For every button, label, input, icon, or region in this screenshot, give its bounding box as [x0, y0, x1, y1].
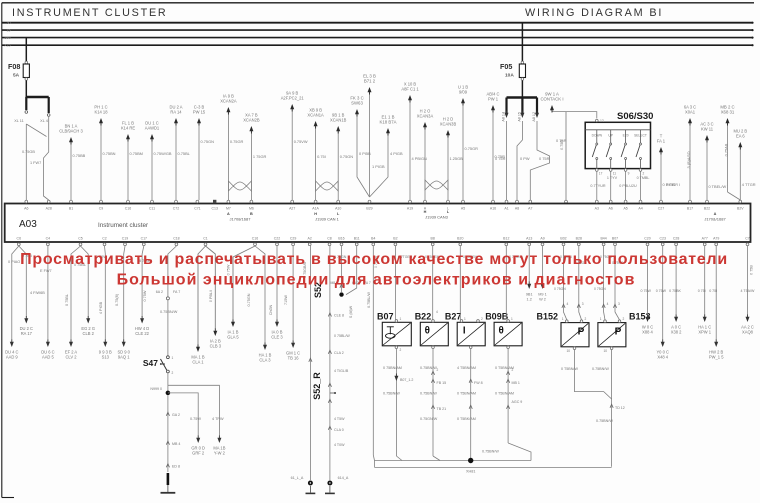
- svg-text:1: 1: [400, 317, 402, 321]
- ground symbol S47: [161, 492, 176, 494]
- svg-text:B22: B22: [415, 311, 432, 321]
- svg-text:S47: S47: [143, 358, 158, 368]
- svg-text:WIRING DIAGRAM BI: WIRING DIAGRAM BI: [525, 7, 663, 19]
- svg-text:C13: C13: [211, 207, 217, 211]
- wire pin C1 V-split right to IA2B: [206, 246, 216, 329]
- svg-text:C71: C71: [194, 207, 200, 211]
- svg-text:0 T5BN/AM: 0 T5BN/AM: [495, 366, 514, 370]
- wire col B2V: [739, 146, 741, 200]
- svg-text:CLE 8: CLE 8: [334, 314, 344, 318]
- F05 branch bar: [507, 96, 538, 98]
- svg-text:B02: B02: [560, 237, 566, 241]
- svg-text:M6: M6: [249, 207, 254, 211]
- wire col A10: [337, 130, 339, 200]
- wire from pin 255.0 to arrow HA 1 B: [255, 246, 265, 343]
- svg-text:4: 4: [567, 302, 569, 306]
- svg-text:1: 1: [172, 356, 174, 360]
- svg-text:3: 3: [582, 302, 584, 306]
- wire from pin 47.9 to arrow DU 6 C: [47, 246, 49, 340]
- wire from pin 125.0 to arrow SD 9 0: [124, 246, 125, 340]
- wire from pin 143.8 to arrow HW 4 D: [142, 246, 144, 317]
- svg-text:4 T5W: 4 T5W: [334, 417, 345, 421]
- svg-text:AGC 9: AGC 9: [512, 400, 523, 404]
- svg-text:H: H: [314, 212, 317, 216]
- svg-text:X0A1: X0A1: [685, 110, 696, 115]
- svg-text:A7: A7: [528, 207, 532, 211]
- svg-text:S (M)W: S (M)W: [349, 305, 353, 318]
- B153 output chain: [610, 347, 613, 350]
- svg-text:0.75BN/W: 0.75BN/W: [160, 310, 178, 314]
- wire from S06 pin 17 to A03: [596, 171, 598, 200]
- svg-text:4 PIGB: 4 PIGB: [99, 301, 103, 314]
- wire pin B16 stub: [341, 246, 343, 292]
- wire col B22: [706, 139, 708, 200]
- svg-text:B12: B12: [503, 237, 509, 241]
- svg-text:2: 2: [623, 317, 625, 321]
- svg-text:A6: A6: [609, 207, 613, 211]
- svg-text:A13: A13: [526, 237, 532, 241]
- svg-text:0 PW: 0 PW: [520, 156, 530, 161]
- svg-text:FA 1: FA 1: [657, 139, 666, 144]
- svg-text:0 75R: 0 75R: [539, 156, 550, 161]
- svg-text:1 75GR: 1 75GR: [253, 154, 267, 159]
- svg-text:A5: A5: [623, 207, 627, 211]
- svg-text:GA 2: GA 2: [172, 413, 180, 417]
- svg-text:17: 17: [599, 172, 603, 176]
- svg-text:0.7TYUR: 0.7TYUR: [590, 184, 606, 188]
- svg-text:B27: B27: [445, 311, 462, 321]
- svg-text:C72: C72: [173, 207, 179, 211]
- wire col M6: [250, 130, 252, 200]
- svg-text:C2: C2: [102, 237, 107, 241]
- B07 output chain: [395, 346, 398, 349]
- svg-text:4 T5BN/AM: 4 T5BN/AM: [457, 366, 476, 370]
- svg-text:GRF 2: GRF 2: [192, 451, 205, 456]
- svg-text:B20: B20: [457, 237, 463, 241]
- svg-text:C19: C19: [122, 237, 128, 241]
- svg-text:C8: C8: [327, 237, 332, 241]
- wire col A27: [291, 108, 293, 200]
- svg-text:F08: F08: [8, 62, 20, 71]
- svg-text:B44: B44: [600, 237, 606, 241]
- svg-text:2: 2: [172, 371, 174, 375]
- svg-text:C4: C4: [46, 237, 51, 241]
- svg-text:I: I: [463, 325, 466, 336]
- svg-text:Instrument cluster: Instrument cluster: [98, 222, 148, 229]
- svg-text:0 75W: 0 75W: [143, 290, 147, 301]
- wire col B17: [689, 122, 691, 200]
- svg-text:XCAN3B: XCAN3B: [440, 122, 457, 127]
- svg-text:A1: A1: [504, 207, 508, 211]
- svg-text:TB 21: TB 21: [437, 407, 447, 411]
- svg-text:3: 3: [618, 302, 620, 306]
- wire pin B20 to B27: [459, 246, 461, 320]
- svg-text:A79: A79: [713, 237, 719, 241]
- svg-text:2: 2: [400, 348, 402, 352]
- S47 ground chain: [167, 396, 169, 473]
- svg-text:C9: C9: [99, 207, 104, 211]
- svg-text:θ: θ: [498, 325, 503, 336]
- svg-text:C17: C17: [141, 237, 147, 241]
- wire col A1A: [315, 125, 317, 200]
- svg-text:FW 8: FW 8: [474, 381, 483, 385]
- svg-text:A8 14: A8 14: [502, 112, 506, 122]
- svg-text:58d: 58d: [5, 36, 11, 40]
- wire pin B8 to B22: [432, 246, 434, 320]
- svg-text:C28: C28: [673, 237, 679, 241]
- frame top border: [2, 2, 754, 4]
- svg-text:0.75BL: 0.75BL: [178, 151, 191, 156]
- svg-text:E FW7: E FW7: [40, 269, 52, 273]
- wire col E11B: [370, 132, 389, 197]
- svg-text:CLE 3: CLE 3: [271, 335, 283, 340]
- svg-text:0.75W/GB: 0.75W/GB: [154, 151, 172, 156]
- svg-text:H: H: [424, 210, 427, 214]
- svg-text:4 T0W: 4 T0W: [334, 443, 345, 447]
- twisted pair J1939 CAN3: [425, 180, 448, 190]
- wire col H: [424, 126, 426, 200]
- svg-text:715W: 715W: [284, 295, 288, 305]
- svg-text:11: 11: [613, 172, 617, 176]
- B09B output chain: [507, 346, 510, 349]
- wire from pin 80.5 to arrow EG 2 G: [81, 246, 89, 317]
- svg-text:PW 15: PW 15: [193, 110, 206, 115]
- svg-text:1: 1: [464, 317, 466, 321]
- A03 top pin terminals: [25, 200, 28, 203]
- svg-text:0.75W: 0.75W: [190, 417, 201, 421]
- svg-text:A77: A77: [702, 237, 708, 241]
- svg-text:FB 15: FB 15: [437, 381, 447, 385]
- fuse F08 feed wire: [25, 38, 27, 62]
- svg-text:K14 RE: K14 RE: [121, 126, 135, 131]
- svg-text:A5: A5: [461, 207, 465, 211]
- svg-text:A8 12: A8 12: [532, 112, 536, 122]
- switch SELECT: [640, 130, 642, 143]
- svg-text:0 75BL: 0 75BL: [65, 294, 69, 306]
- svg-text:J1939 CAN 1: J1939 CAN 1: [315, 217, 340, 222]
- svg-text:X15: X15: [4, 44, 10, 48]
- svg-text:0.75GN: 0.75GN: [340, 154, 354, 159]
- wires from F05 splitter to A03: [506, 121, 508, 200]
- junction dot B16: [339, 292, 343, 296]
- svg-text:SW63: SW63: [351, 101, 363, 106]
- B22 output chain: [432, 346, 435, 349]
- wire pin B12 to B09B: [505, 246, 507, 320]
- svg-text:0 75I: 0 75I: [698, 289, 706, 293]
- twisted pair J1708: [228, 181, 251, 191]
- svg-text:X38 2: X38 2: [671, 330, 682, 335]
- node junction above S47: [166, 297, 169, 300]
- svg-text:GLA 5: GLA 5: [227, 335, 239, 340]
- svg-text:θ: θ: [425, 325, 430, 336]
- wire col AA 2 C: [747, 246, 749, 315]
- svg-text:0 T5BN/AM: 0 T5BN/AM: [457, 392, 476, 396]
- svg-text:K18 B7A: K18 B7A: [380, 120, 397, 125]
- svg-text:CLA 2: CLA 2: [334, 351, 344, 355]
- ECU A03 instrument cluster box: [5, 204, 751, 243]
- svg-text:0.75BN/W: 0.75BN/W: [420, 366, 437, 370]
- svg-text:0.75GN: 0.75GN: [247, 293, 251, 306]
- svg-text:A2F.PC2_21: A2F.PC2_21: [281, 96, 305, 101]
- wire from pin 18.8 to arrow DU 4 C: [12, 246, 19, 340]
- square terminal C13: [213, 200, 216, 203]
- wire col C16: [127, 138, 129, 200]
- svg-text:3 (B)A/3D: 3 (B)A/3D: [686, 151, 691, 168]
- svg-text:C16: C16: [252, 237, 258, 241]
- svg-text:B07_1.2: B07_1.2: [400, 378, 413, 382]
- svg-text:Просматривать и распечатывать: Просматривать и распечатывать в высоком …: [20, 251, 728, 268]
- svg-text:X48 4: X48 4: [657, 355, 668, 360]
- svg-text:C20: C20: [644, 237, 650, 241]
- svg-text:P: P: [615, 327, 622, 338]
- svg-text:1: 1: [562, 317, 564, 321]
- wires pins B02/B28 to B152: [564, 246, 567, 320]
- svg-text:KW 11: KW 11: [701, 127, 714, 132]
- svg-text:A27: A27: [289, 207, 295, 211]
- svg-text:1: 1: [511, 317, 513, 321]
- svg-text:XH81: XH81: [466, 470, 476, 474]
- svg-text:A1A: A1A: [312, 207, 319, 211]
- svg-text:0 75B: 0 75B: [750, 265, 754, 275]
- svg-text:B71 2: B71 2: [364, 79, 376, 84]
- svg-text:614_A: 614_A: [338, 476, 349, 480]
- svg-text:A: A: [714, 212, 717, 216]
- svg-text:0 TMBL: 0 TMBL: [637, 176, 650, 180]
- svg-text:0 75W: 0 75W: [656, 289, 667, 293]
- svg-text:0.75GB: 0.75GB: [22, 150, 35, 154]
- svg-text:K14 18: K14 18: [95, 110, 109, 115]
- svg-text:AAD 9: AAD 9: [6, 355, 19, 360]
- svg-text:B29: B29: [366, 207, 372, 211]
- svg-text:ED 8: ED 8: [172, 465, 180, 469]
- wire col HA 1 C: [704, 246, 706, 315]
- wire stub left of S06 down to A03: [565, 112, 567, 200]
- svg-text:15: 15: [7, 29, 11, 33]
- svg-text:A19: A19: [407, 207, 413, 211]
- svg-text:2: 2: [481, 317, 483, 321]
- wire pin C18 to S47: [168, 246, 177, 297]
- wire pin A13 arrow: [528, 246, 530, 282]
- svg-text:10A: 10A: [505, 73, 514, 79]
- svg-text:0.75VW: 0.75VW: [294, 139, 308, 144]
- collector line lower: [375, 466, 612, 468]
- svg-text:B22: B22: [704, 207, 710, 211]
- wire XL11 down to pin A6: [25, 124, 27, 200]
- svg-text:C27: C27: [658, 207, 664, 211]
- wire pin A2 to ground 61_L_A: [309, 246, 311, 480]
- svg-text:9AQ 1: 9AQ 1: [118, 355, 130, 360]
- svg-text:PW_1 5: PW_1 5: [709, 355, 724, 360]
- svg-text:4 TTGR: 4 TTGR: [742, 182, 756, 187]
- svg-text:0 TBEL/W: 0 TBEL/W: [709, 184, 727, 189]
- svg-text:C5: C5: [78, 237, 83, 241]
- wire col M7: [227, 111, 229, 200]
- svg-text:AAD 5: AAD 5: [42, 355, 55, 360]
- wire col FK3C: [357, 113, 370, 197]
- svg-text:A3: A3: [595, 207, 599, 211]
- svg-text:0.75GR: 0.75GR: [230, 139, 244, 144]
- svg-text:S52_R: S52_R: [312, 372, 322, 400]
- frame left border: [1, 3, 3, 498]
- wire col A19: [409, 99, 411, 200]
- svg-text:0.75GN: 0.75GN: [201, 139, 215, 144]
- svg-text:MB 4: MB 4: [172, 442, 180, 446]
- svg-text:1 TYV: 1 TYV: [607, 176, 618, 180]
- svg-text:9B1: 9B1: [526, 293, 533, 297]
- svg-text:B07: B07: [377, 311, 394, 321]
- wire below F08: [25, 81, 27, 98]
- B27 output chain: [469, 346, 472, 349]
- svg-text:MB 1: MB 1: [512, 381, 520, 385]
- junction dot N999: [166, 391, 171, 396]
- svg-text:W 2: W 2: [539, 298, 546, 302]
- svg-text:C22: C22: [274, 237, 280, 241]
- svg-text:C11: C11: [149, 207, 155, 211]
- wire col CONTACK: [552, 109, 597, 119]
- wire from pin 80.5 to arrow EF 2 A: [71, 246, 81, 340]
- wire col Y0 0 C: [662, 246, 664, 340]
- wire col C27: [660, 151, 662, 200]
- wire col EL3B: [369, 91, 371, 197]
- svg-text:4 FIW6B: 4 FIW6B: [30, 291, 45, 295]
- svg-text:4: 4: [607, 302, 609, 306]
- wire from pin 104.5 to arrow 9 9 3 B: [104, 246, 107, 340]
- svg-text:XCAN1A: XCAN1A: [307, 113, 324, 118]
- ground circle 614_A: [327, 481, 332, 486]
- wire pin B2 to B07: [394, 246, 396, 320]
- svg-text:RA 14: RA 14: [170, 110, 182, 115]
- collector line upper: [375, 460, 532, 462]
- svg-text:0.75GR: 0.75GR: [465, 146, 479, 151]
- svg-text:XL 4: XL 4: [40, 119, 48, 123]
- svg-text:4 PIGB: 4 PIGB: [390, 151, 403, 156]
- svg-text:J1708/1687: J1708/1687: [230, 217, 252, 222]
- svg-text:XCAN2A: XCAN2A: [220, 99, 237, 104]
- wire col B1: [70, 141, 72, 200]
- wire col C72: [175, 122, 177, 200]
- wire pin B11 to node: [346, 246, 357, 295]
- svg-text:A6: A6: [24, 207, 28, 211]
- svg-text:9: 9: [628, 172, 630, 176]
- svg-text:XCAN1B: XCAN1B: [330, 118, 347, 123]
- svg-text:0 PICR I: 0 PICR I: [666, 183, 680, 187]
- svg-text:2: 2: [585, 317, 587, 321]
- ground circle 61_L_A: [308, 481, 313, 486]
- svg-text:INSTRUMENT CLUSTER: INSTRUMENT CLUSTER: [12, 7, 167, 19]
- svg-text:C23: C23: [659, 237, 665, 241]
- svg-text:S06/S30: S06/S30: [617, 111, 653, 122]
- svg-text:2: 2: [643, 172, 645, 176]
- svg-text:RA 17: RA 17: [21, 331, 33, 336]
- svg-text:B: B: [250, 212, 253, 216]
- svg-text:A03: A03: [19, 219, 37, 230]
- wire below F05: [521, 81, 523, 97]
- svg-text:A2: A2: [308, 237, 312, 241]
- svg-text:0.75(8): 0.75(8): [115, 293, 119, 306]
- svg-text:TB 16: TB 16: [288, 356, 300, 361]
- svg-text:0 75W: 0 75W: [641, 289, 652, 293]
- svg-text:A16: A16: [490, 207, 496, 211]
- svg-text:A10: A10: [335, 207, 341, 211]
- svg-text:CLB 3: CLB 3: [210, 344, 222, 349]
- svg-text:CLE 22: CLE 22: [135, 331, 149, 336]
- svg-text:10: 10: [603, 349, 607, 353]
- svg-text:A: A: [227, 212, 230, 216]
- svg-text:0 T5BN/AM: 0 T5BN/AM: [495, 392, 514, 396]
- switch UP: [610, 130, 612, 143]
- svg-text:CONTACK I: CONTACK I: [540, 97, 563, 102]
- svg-text:AAWD1: AAWD1: [145, 126, 160, 131]
- junction dot XH81: [468, 458, 473, 463]
- wire from S06 pin 11 to A03: [610, 171, 612, 200]
- wire pin B4 to collector: [373, 246, 374, 461]
- wire from S06 pin 2 to A03: [640, 171, 642, 200]
- svg-text:S13: S13: [102, 355, 110, 360]
- svg-text:B152: B152: [536, 312, 558, 322]
- wire col C9: [100, 122, 102, 200]
- wire XL4 jog down to pin A28: [44, 116, 49, 200]
- svg-text:10: 10: [566, 349, 570, 353]
- svg-text:0 75BN/AM: 0 75BN/AM: [383, 366, 402, 370]
- svg-text:B8: B8: [431, 237, 435, 241]
- svg-text:CLA 0: CLA 0: [334, 428, 344, 432]
- wire col C11: [151, 138, 153, 200]
- svg-text:B2V: B2V: [737, 207, 744, 211]
- F08 branch bar: [26, 96, 49, 98]
- wire pin A9 arrow: [542, 246, 544, 282]
- svg-text:CLA 3: CLA 3: [259, 358, 271, 363]
- svg-text:1: 1: [600, 317, 602, 321]
- svg-text:0 PBL/I: 0 PBL/I: [209, 290, 213, 302]
- svg-text:C7: C7: [745, 237, 750, 241]
- svg-text:Y-W 2: Y-W 2: [214, 451, 226, 456]
- svg-text:1.25GB: 1.25GB: [450, 156, 464, 161]
- svg-text:0.75BN/W: 0.75BN/W: [383, 392, 400, 396]
- bus line 58d: [2, 37, 753, 39]
- wire pin C16 V-split left to IA1B: [233, 246, 255, 320]
- svg-text:0.75BN/W: 0.75BN/W: [482, 450, 499, 454]
- svg-text:C6: C6: [17, 237, 22, 241]
- wire col MB2C/X68: [727, 122, 729, 192]
- bus line X15: [2, 44, 753, 46]
- svg-text:9/09: 9/09: [459, 90, 468, 95]
- svg-text:12: 12: [600, 119, 604, 123]
- svg-text:A8 15: A8 15: [517, 112, 521, 122]
- svg-text:5A: 5A: [13, 73, 20, 79]
- svg-text:0.75I: 0.75I: [317, 154, 326, 159]
- svg-text:F05: F05: [500, 62, 512, 71]
- branch to GR0D: [168, 393, 198, 436]
- svg-text:0.75GN/W: 0.75GN/W: [420, 417, 438, 421]
- svg-text:B11: B11: [354, 237, 360, 241]
- wire from pin 293.1 to arrow GM 1 C: [292, 246, 294, 341]
- wire col A5: [462, 102, 464, 200]
- svg-text:1.2: 1.2: [527, 298, 532, 302]
- wire col A16: [492, 109, 494, 200]
- svg-text:PW 1: PW 1: [488, 97, 499, 102]
- wire col L: [447, 134, 449, 200]
- svg-text:CLA 1: CLA 1: [192, 360, 204, 365]
- svg-text:4 T5A/W: 4 T5A/W: [741, 289, 756, 293]
- svg-text:0 75BK: 0 75BK: [669, 289, 681, 293]
- svg-text:J1939 CAN3: J1939 CAN3: [425, 215, 448, 220]
- B152 output: [573, 347, 576, 350]
- svg-text:0 PBLU2U: 0 PBLU2U: [619, 184, 637, 188]
- svg-text:ChGN: ChGN: [269, 304, 273, 315]
- svg-text:4 TIGL/B: 4 TIGL/B: [334, 369, 349, 373]
- svg-text:0.75R: 0.75R: [560, 140, 564, 150]
- svg-text:C29: C29: [290, 237, 296, 241]
